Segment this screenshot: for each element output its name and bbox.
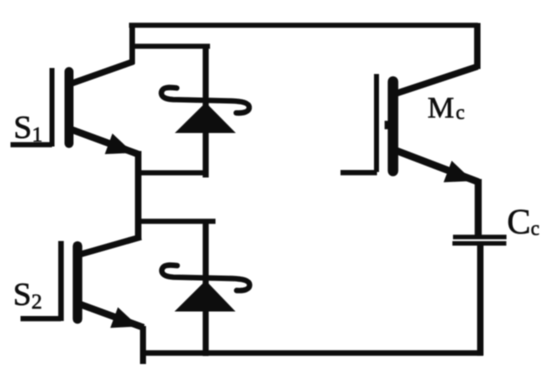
wire right top vertical <box>474 23 480 69</box>
wire bottom rail <box>141 350 484 356</box>
wire Mc source to capacitor <box>475 179 482 236</box>
capacitor Cc bottom plate <box>452 241 506 246</box>
capacitor Cc top plate <box>453 235 507 240</box>
wire S2 emitter drop <box>140 326 146 364</box>
diode D2 <box>175 281 236 312</box>
transistor S2 collector lead <box>78 237 141 255</box>
svg-text:Cc: Cc <box>507 202 540 242</box>
transistor Mc source lead <box>396 151 479 183</box>
svg-text:Mc: Mc <box>428 91 465 124</box>
wire mid rail vertical <box>135 151 142 240</box>
transistor S1 collector lead <box>70 62 134 85</box>
transistor Mc gate lead <box>341 170 378 175</box>
transistor Mc drain lead <box>395 67 478 95</box>
svg-text:S2: S2 <box>13 277 42 314</box>
transistor S1 emitter lead <box>70 129 139 154</box>
transistor S1 emitter arrow <box>105 134 133 155</box>
transistor Mc source arrow <box>444 161 473 183</box>
wire mid rail to diode D2 top <box>138 219 216 224</box>
circulating-current arrow over D2 <box>162 265 250 291</box>
wire node A to diode D1 top <box>131 44 210 49</box>
wire diode D2 branch vertical <box>203 221 209 356</box>
transistor S2 gate lead <box>21 316 62 321</box>
wire S1 collector riser <box>129 23 135 64</box>
label S1 <box>14 110 43 147</box>
transistor Mc gate bar <box>374 74 379 172</box>
wire capacitor to bottom rail <box>477 245 483 356</box>
circulating-current arrow over D1 <box>161 87 249 113</box>
label Mc <box>428 91 465 124</box>
transistor S2 emitter lead <box>78 304 144 328</box>
transistor S1 gate lead <box>11 142 53 147</box>
transistor Mc body tick <box>385 121 389 129</box>
transistor Mc body bar <box>388 82 399 172</box>
transistor S1 gate bar <box>50 68 55 147</box>
wire top rail <box>129 23 478 28</box>
label S2 <box>13 277 42 314</box>
diode D1 <box>175 103 236 134</box>
wire diode D1 branch vertical <box>203 46 209 178</box>
transistor S2 body bar <box>73 246 83 319</box>
transistor S1 body bar <box>65 72 74 144</box>
transistor S2 gate bar <box>58 241 64 321</box>
wire mid rail to diode D1 bottom <box>138 170 209 175</box>
svg-text:S1: S1 <box>14 110 43 147</box>
transistor S2 emitter arrow <box>110 307 138 328</box>
label Cc <box>507 202 540 242</box>
